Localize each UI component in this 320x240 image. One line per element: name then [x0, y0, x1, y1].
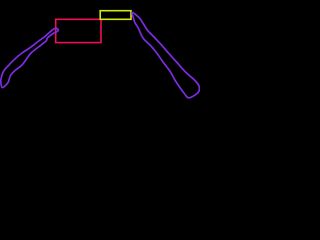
- right purple lasso stroke: [132, 12, 200, 98]
- red rectangle: [56, 19, 101, 42]
- yellow-green rectangle: [100, 11, 131, 20]
- left purple lasso stroke: [1, 28, 58, 88]
